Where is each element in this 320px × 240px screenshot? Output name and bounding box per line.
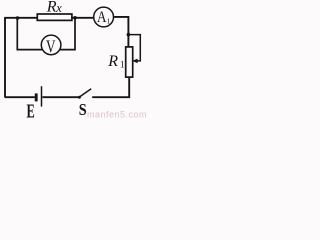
switch S pivot — [78, 96, 81, 99]
svg-text:manfen5.com: manfen5.com — [87, 110, 147, 119]
wire left vertical — [4, 18, 6, 97]
wire rheostat bottom to bottom rail — [92, 77, 129, 97]
wire voltmeter branch left — [17, 18, 42, 50]
svg-text:V: V — [46, 38, 55, 57]
wire bottom rail left segment — [5, 96, 35, 98]
node junction rheostat wiper tap — [127, 33, 131, 37]
rheostat R1 label — [107, 53, 125, 71]
node junction voltmeter tap left — [16, 16, 20, 20]
svg-text:1: 1 — [107, 17, 111, 26]
rheostat R1 body — [126, 47, 133, 77]
svg-text:R: R — [107, 53, 118, 70]
rheostat R1 wiper arm — [128, 35, 140, 61]
svg-text:E: E — [27, 100, 35, 119]
node junction voltmeter tap right — [73, 16, 77, 20]
switch S blade — [79, 89, 91, 97]
wire ammeter to right corner, down to rheostat — [114, 17, 129, 47]
svg-text:x: x — [55, 1, 62, 15]
svg-text:R: R — [46, 0, 57, 15]
resistor Rx label — [46, 0, 62, 15]
wire bottom rail mid segment — [42, 96, 79, 98]
voltmeter V — [41, 35, 61, 57]
svg-text:A: A — [97, 9, 107, 26]
wire top rail left segment — [4, 17, 37, 19]
resistor Rx body — [37, 14, 72, 20]
svg-text:S: S — [79, 101, 87, 119]
ammeter A1 — [94, 7, 114, 27]
wire top rail mid segment — [72, 17, 94, 19]
rheostat R1 wiper arrowhead — [132, 59, 137, 64]
battery E short negative plate — [35, 93, 38, 101]
svg-text:1: 1 — [120, 61, 125, 71]
wire voltmeter branch right — [60, 18, 75, 50]
battery E long positive plate — [41, 86, 43, 106]
